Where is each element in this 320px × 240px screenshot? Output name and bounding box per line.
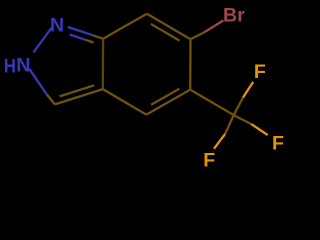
svg-text:Br: Br [223, 4, 245, 26]
bond C5=C4 inner line [151, 89, 179, 105]
svg-text:F: F [254, 61, 266, 83]
bond N2=C7a main line [68, 27, 93, 35]
bond C4-C3a [103, 89, 147, 115]
svg-text:N: N [50, 15, 64, 37]
bond C8-F top outer half [243, 82, 253, 98]
bond C5=C4 main line [146, 90, 190, 115]
bond C7=C6 main line [147, 14, 191, 40]
bond C6-C5 [189, 39, 192, 89]
svg-text:F: F [272, 133, 284, 155]
bond C7=C6 inner line [151, 24, 180, 41]
bond C8-F bottom [225, 115, 234, 134]
bond N1-N2 [33, 28, 51, 53]
bond N2=C7a inner line [70, 35, 86, 40]
ring fusion bond C7a-C3a [102, 39, 105, 89]
bond C3=C3a inner line [60, 85, 95, 96]
svg-text:H: H [4, 55, 16, 77]
bond N2=C7a main line outer half [93, 35, 104, 39]
bond C6-Br [191, 32, 205, 39]
bond C3=C3a main line [55, 89, 103, 104]
bond C3-N1H [47, 94, 55, 104]
bond C8-F right outer half [251, 124, 267, 135]
bond C6-Br outer half [204, 20, 223, 32]
bond C7a-C7 [103, 14, 147, 39]
svg-text:N: N [16, 55, 30, 77]
bond N2=C7a inner line outer half [86, 40, 94, 43]
bond C5-C8 (CF3) [190, 90, 234, 116]
bond C8-F bottom outer half [214, 134, 225, 149]
bond C8-F top [234, 98, 243, 116]
bond C8-F right [234, 115, 252, 124]
bond C3-N1H outer half [29, 69, 47, 95]
svg-text:F: F [203, 150, 215, 172]
